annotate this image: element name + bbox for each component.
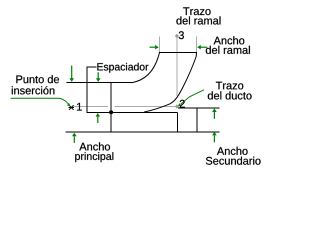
label 3 (179, 31, 184, 39)
label Espaciador (97, 63, 148, 73)
insertion point marker (69, 105, 74, 110)
branch right edge tick (195, 52, 197, 56)
duct centerline (horizontal, gray) (74, 106, 109, 108)
branch left edge tick (159, 52, 160, 56)
node 2 diamond marker (175, 104, 179, 108)
secondary duct joint vertical (196, 108, 198, 132)
label Ancho Secundario line 2 (206, 157, 261, 165)
label Trazo del ducto line 1 (216, 82, 243, 90)
extension line left of branch opening (159, 37, 161, 53)
green leader from inserción text to insertion point (11, 98, 71, 106)
green dimension arrow up (Ancho principal bottom) (72, 133, 77, 143)
label Ancho principal line 2 (75, 152, 113, 162)
transition slant from point 2 (178, 107, 195, 109)
outer takeoff curve (132, 56, 159, 82)
node 3 diamond marker (175, 34, 179, 38)
green dimension arrow up (spacer bottom) (96, 113, 101, 123)
extension line right of branch opening (195, 37, 197, 53)
label Trazo del ramal line 1 (183, 7, 210, 15)
spacer left edge (86, 83, 88, 113)
green dimension arrow up (Ancho Secundario bottom) (212, 132, 217, 143)
green dimension arrow up (secondary duct top) (212, 108, 217, 119)
junction dot (109, 110, 113, 114)
green dimension arrow down (Ancho principal top) (69, 66, 74, 82)
label Ancho principal line 1 (79, 142, 110, 150)
green leader from Trazo del ducto text to point 2 (178, 90, 204, 107)
inner takeoff S-curve (144, 57, 196, 113)
joint vertical under point 2 (176, 112, 178, 132)
branch opening top edge (159, 51, 197, 53)
spacer right edge / branch drop (110, 83, 112, 132)
label inserción (12, 86, 55, 94)
green dimension arrow left (branch width right) (197, 45, 207, 50)
Espaciador leader bracket (87, 67, 96, 83)
duct bottom edge (66, 131, 220, 133)
spacer bottom line / duct top at takeoff (87, 111, 177, 113)
main duct top edge (67, 82, 133, 84)
green dimension arrow down (Espaciador top) (96, 72, 101, 82)
label 1 (77, 103, 82, 111)
label Ancho Secundario line 1 (217, 147, 248, 155)
label Trazo del ducto line 2 (208, 91, 252, 99)
label Punto de (16, 75, 59, 83)
green dimension arrow right (branch width left) (150, 45, 159, 50)
secondary duct top edge (195, 107, 220, 109)
label Trazo del ramal line 2 (176, 16, 220, 24)
label Ancho del ramal line 1 (214, 36, 245, 44)
label 2 (180, 100, 185, 108)
branch centerline (vertical, gray) (176, 37, 178, 97)
label Ancho del ramal line 2 (206, 46, 250, 54)
